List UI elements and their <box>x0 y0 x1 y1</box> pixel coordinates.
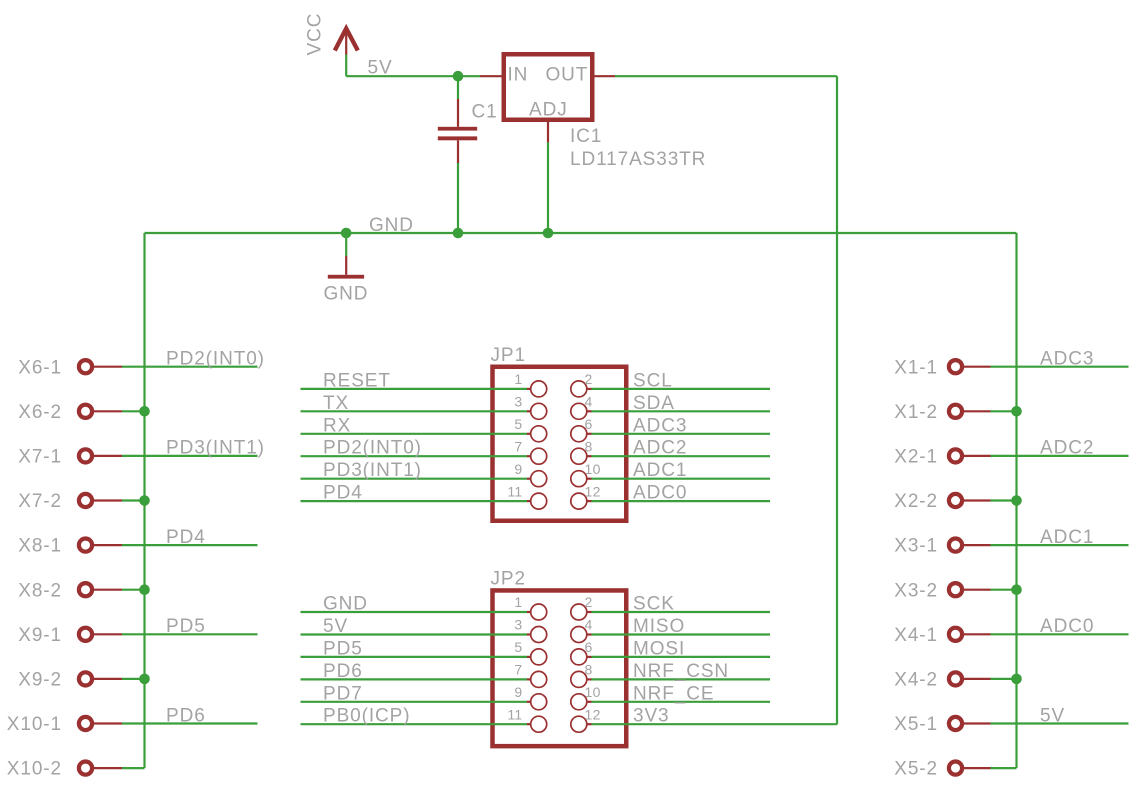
svg-text:X6-1: X6-1 <box>18 357 62 378</box>
svg-text:NRF_CSN: NRF_CSN <box>633 661 729 682</box>
svg-text:PD7: PD7 <box>323 683 363 704</box>
svg-text:IN: IN <box>508 65 529 86</box>
svg-text:11: 11 <box>507 483 522 499</box>
svg-text:5V: 5V <box>368 58 393 79</box>
svg-text:1: 1 <box>514 371 522 387</box>
svg-text:5V: 5V <box>323 616 348 637</box>
svg-text:X1-1: X1-1 <box>894 357 938 378</box>
svg-text:7: 7 <box>514 438 522 454</box>
svg-text:PD6: PD6 <box>323 661 363 682</box>
svg-text:12: 12 <box>585 483 601 499</box>
svg-text:X5-1: X5-1 <box>894 714 938 735</box>
svg-text:X4-2: X4-2 <box>894 670 938 691</box>
svg-text:4: 4 <box>585 617 593 633</box>
svg-text:11: 11 <box>507 706 522 722</box>
svg-text:X6-2: X6-2 <box>18 402 62 423</box>
svg-text:X3-1: X3-1 <box>894 536 938 557</box>
svg-text:ADC0: ADC0 <box>633 483 687 504</box>
svg-text:X2-2: X2-2 <box>894 491 938 512</box>
svg-text:2: 2 <box>585 594 593 610</box>
svg-text:3: 3 <box>514 394 522 410</box>
svg-text:8: 8 <box>585 438 593 454</box>
svg-text:5: 5 <box>514 416 522 432</box>
svg-text:RESET: RESET <box>323 370 391 391</box>
svg-text:X7-1: X7-1 <box>18 447 62 468</box>
svg-text:RX: RX <box>323 415 351 436</box>
svg-text:6: 6 <box>585 416 593 432</box>
svg-text:PD4: PD4 <box>166 527 206 548</box>
svg-text:9: 9 <box>514 461 522 477</box>
svg-text:MOSI: MOSI <box>633 638 685 659</box>
svg-text:7: 7 <box>514 662 522 678</box>
svg-text:PD2(INT0): PD2(INT0) <box>166 349 265 370</box>
svg-text:PD4: PD4 <box>323 483 363 504</box>
svg-text:NRF_CE: NRF_CE <box>633 683 714 704</box>
svg-text:PD5: PD5 <box>166 616 206 637</box>
svg-text:5V: 5V <box>1040 705 1065 726</box>
svg-text:PD3(INT1): PD3(INT1) <box>166 438 265 459</box>
svg-text:X10-2: X10-2 <box>7 759 62 780</box>
svg-text:X5-2: X5-2 <box>894 759 938 780</box>
svg-text:ADC2: ADC2 <box>633 438 687 459</box>
svg-text:X2-1: X2-1 <box>894 447 938 468</box>
svg-text:X4-1: X4-1 <box>894 625 938 646</box>
svg-text:PD3(INT1): PD3(INT1) <box>323 460 422 481</box>
svg-text:ADC3: ADC3 <box>1040 349 1094 370</box>
svg-text:4: 4 <box>585 394 593 410</box>
svg-text:IC1: IC1 <box>570 126 602 147</box>
svg-text:9: 9 <box>514 684 522 700</box>
svg-text:SCK: SCK <box>633 594 675 615</box>
svg-text:3V3: 3V3 <box>633 706 670 727</box>
svg-text:GND: GND <box>323 594 368 615</box>
svg-text:ADJ: ADJ <box>529 100 568 121</box>
svg-text:GND: GND <box>324 284 369 305</box>
svg-text:LD117AS33TR: LD117AS33TR <box>570 149 706 170</box>
svg-text:ADC1: ADC1 <box>1040 527 1094 548</box>
svg-text:JP2: JP2 <box>491 569 526 590</box>
svg-text:PD2(INT0): PD2(INT0) <box>323 438 422 459</box>
svg-text:2: 2 <box>585 371 593 387</box>
svg-text:OUT: OUT <box>546 65 589 86</box>
svg-text:5: 5 <box>514 639 522 655</box>
svg-text:ADC0: ADC0 <box>1040 616 1094 637</box>
svg-text:10: 10 <box>585 684 601 700</box>
svg-text:8: 8 <box>585 662 593 678</box>
svg-text:X8-1: X8-1 <box>18 536 62 557</box>
svg-text:SCL: SCL <box>633 370 673 391</box>
svg-text:X1-2: X1-2 <box>894 402 938 423</box>
svg-text:PB0(ICP): PB0(ICP) <box>323 706 410 727</box>
svg-text:X3-2: X3-2 <box>894 580 938 601</box>
svg-text:1: 1 <box>514 594 522 610</box>
svg-text:TX: TX <box>323 393 349 414</box>
svg-text:JP1: JP1 <box>491 345 526 366</box>
svg-text:X10-1: X10-1 <box>7 714 62 735</box>
svg-text:MISO: MISO <box>633 616 685 637</box>
svg-text:PD5: PD5 <box>323 638 363 659</box>
svg-text:X8-2: X8-2 <box>18 580 62 601</box>
svg-text:X9-1: X9-1 <box>18 625 62 646</box>
svg-text:SDA: SDA <box>633 393 675 414</box>
svg-text:ADC1: ADC1 <box>633 460 687 481</box>
svg-text:VCC: VCC <box>305 13 326 56</box>
svg-text:X9-2: X9-2 <box>18 670 62 691</box>
svg-text:6: 6 <box>585 639 593 655</box>
svg-text:PD6: PD6 <box>166 705 206 726</box>
svg-text:C1: C1 <box>472 102 498 123</box>
svg-text:3: 3 <box>514 617 522 633</box>
svg-text:GND: GND <box>369 215 414 236</box>
svg-text:10: 10 <box>585 461 601 477</box>
svg-text:X7-2: X7-2 <box>18 491 62 512</box>
svg-text:ADC2: ADC2 <box>1040 438 1094 459</box>
svg-text:ADC3: ADC3 <box>633 415 687 436</box>
svg-text:12: 12 <box>585 706 601 722</box>
